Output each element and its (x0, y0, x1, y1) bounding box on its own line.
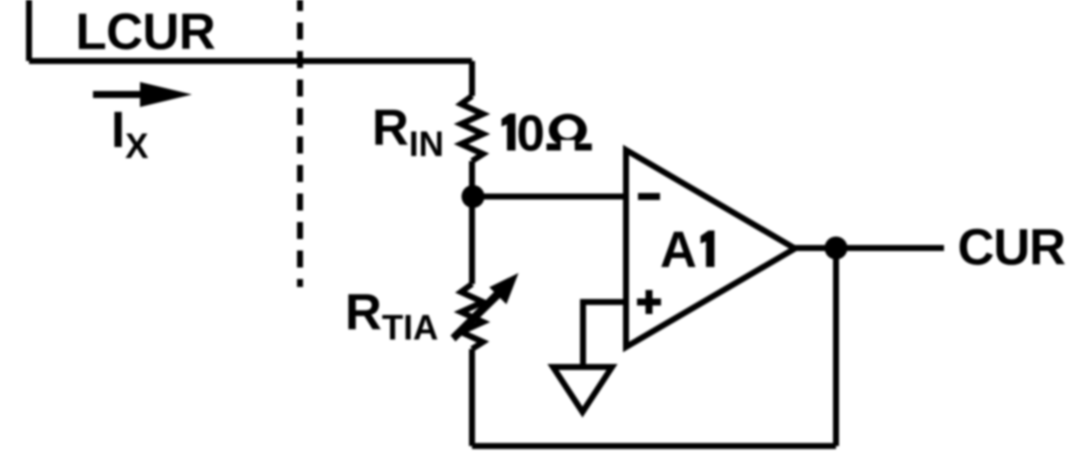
wire box bottom rail (29, 58, 472, 64)
op-amp plus sign (637, 290, 661, 314)
wire RTIA top lead (469, 197, 475, 284)
label 10 value: digit 1 (502, 114, 516, 151)
wire RTIA bottom lead (469, 349, 475, 446)
wire node to op-amp inverting input (473, 194, 626, 200)
wire feedback right vertical (833, 248, 839, 446)
resistor R1 RIN zigzag (461, 96, 483, 161)
svg-text:CUR: CUR (958, 219, 1066, 276)
ground symbol (553, 367, 612, 412)
svg-text:A: A (660, 221, 697, 278)
dashed line chip boundary (297, 0, 303, 287)
variable resistor arrow RTIA (451, 273, 519, 342)
node B output junction dot (825, 237, 848, 260)
svg-text:RIN: RIN (372, 99, 444, 164)
svg-text:LCUR: LCUR (76, 3, 216, 60)
node A junction dot (462, 185, 485, 208)
wire RIN top lead (469, 61, 475, 96)
svg-text:0: 0 (517, 105, 545, 162)
op-amp U1 A1 triangle (626, 150, 795, 347)
wire RIN bottom lead (469, 161, 475, 197)
svg-text:IX: IX (111, 101, 149, 166)
label ohm symbol (547, 114, 592, 154)
op-amp minus sign (638, 193, 660, 200)
wire box left edge (26, 0, 32, 61)
wire feedback bottom (472, 443, 836, 449)
current arrow IX (93, 82, 192, 107)
label A1 digit 1 (701, 231, 715, 268)
svg-text:RTIA: RTIA (345, 284, 438, 348)
wire op-amp output (795, 245, 944, 251)
wire non-inverting input (583, 302, 626, 367)
resistor R2 RTIA zigzag (461, 284, 483, 349)
